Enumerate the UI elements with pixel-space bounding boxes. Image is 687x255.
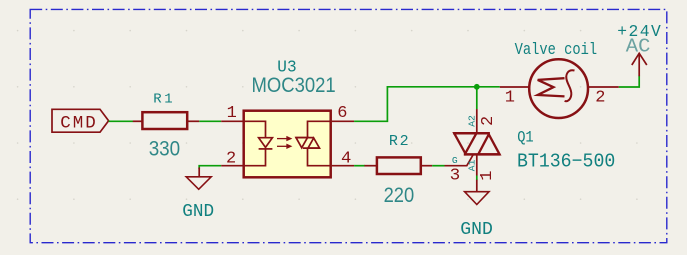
svg-text:1: 1: [478, 171, 497, 181]
svg-text:GND: GND: [182, 201, 214, 222]
U3 LED light arrows: [277, 137, 291, 148]
wire CMD to R1: [109, 120, 133, 122]
coil S glyph: [565, 70, 575, 101]
transistor Q1 triac: [445, 109, 501, 175]
svg-text:220: 220: [384, 184, 415, 207]
svg-text:2: 2: [595, 89, 605, 108]
svg-text:4: 4: [341, 149, 351, 168]
svg-text:R2: R2: [389, 133, 409, 150]
U3 pin 2 stub: [221, 165, 243, 167]
resistor R1: [133, 112, 200, 129]
svg-text:MOC3021: MOC3021: [252, 74, 336, 97]
junction node on top rail: [474, 84, 480, 90]
svg-text:A2: A2: [467, 115, 477, 127]
wire U3 pin 4 to R2: [354, 165, 365, 167]
U3 internal photo-triac: [295, 121, 330, 165]
svg-text:330: 330: [149, 137, 181, 160]
wire valve coil pin 2 to +24V: [619, 76, 639, 87]
resistor R2: [364, 157, 432, 174]
svg-text:A1: A1: [467, 160, 477, 172]
svg-text:BT136−500: BT136−500: [517, 150, 615, 172]
optocoupler U3 body: [244, 111, 331, 178]
svg-text:CMD: CMD: [60, 113, 96, 133]
svg-text:AC: AC: [626, 36, 651, 58]
U3 pin 1 stub: [221, 120, 243, 122]
U3 internal LED: [245, 121, 273, 165]
svg-text:2: 2: [479, 116, 498, 126]
wire Q1 A1 to GND: [476, 176, 478, 181]
wire U3 pin 6 up to top rail: [354, 87, 500, 122]
U3 pin 6 stub: [332, 120, 354, 122]
valve coil K1: [500, 59, 619, 118]
svg-text:3: 3: [450, 167, 461, 186]
svg-text:Q1: Q1: [517, 129, 534, 147]
svg-text:1: 1: [505, 88, 515, 107]
wire R1 to U3 pin 1: [199, 120, 221, 122]
node CMD input label: [52, 109, 109, 132]
ground GND (right): [465, 180, 489, 205]
svg-text:6: 6: [337, 104, 347, 123]
coil sigma glyph: [538, 78, 565, 96]
svg-text:2: 2: [226, 149, 236, 168]
ground GND (left): [186, 168, 211, 190]
svg-text:G: G: [452, 156, 458, 166]
U3 pin 4 stub: [332, 165, 354, 167]
svg-text:Valve coil: Valve coil: [515, 40, 598, 59]
power +24V AC symbol arrow: [632, 53, 647, 76]
wire R2 to Q1 gate: [432, 165, 444, 167]
svg-text:GND: GND: [460, 219, 493, 240]
wire junction down to Q1 A2: [476, 87, 478, 110]
svg-text:1: 1: [227, 104, 237, 123]
grid dots: [17, 30, 638, 200]
wire U3 pin 2 to GND: [199, 166, 221, 169]
